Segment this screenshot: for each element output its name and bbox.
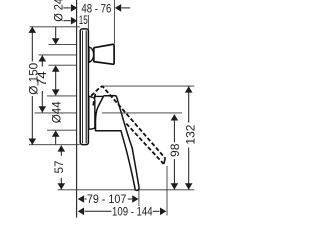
dimension 15 arrow (64, 20, 71, 22)
knob (94, 44, 114, 64)
extension line knob center (39, 54, 77, 56)
dashed sleeve fragment (93, 94, 96, 107)
extension line plate bottom (29, 144, 80, 146)
svg-text:Ø44: Ø44 (49, 101, 63, 123)
wall line (76, 0, 78, 218)
handle collar top edge (95, 95, 104, 97)
extension line 15 right (87, 15, 89, 30)
extension line solid lever tip (138, 190, 140, 206)
extension line lever bottom (58, 189, 195, 191)
svg-text:15: 15 (79, 13, 88, 27)
knob hub (89, 47, 94, 62)
dashed lever lower outline (126, 124, 163, 164)
dimension O44 bottom outside arrow (52, 130, 60, 136)
dimension 48-76 left arrow (63, 7, 70, 9)
extension line handle centerline left (35, 112, 77, 114)
dimension 79-107 left arrow (78, 195, 84, 203)
extension line dashed handle top (102, 85, 195, 87)
lever handle solid (96, 96, 140, 191)
dimension 109-144 right arrow (153, 210, 160, 212)
extension line 48-76 right (113, 0, 115, 44)
svg-text:98: 98 (168, 143, 182, 157)
dimension O24 bottom / O44 top shared rail (52, 65, 60, 71)
plate inner right line (85, 31, 87, 144)
svg-text:132: 132 (184, 124, 198, 144)
dimension 79-107 right arrow (128, 198, 132, 200)
extension line knob top (49, 44, 77, 46)
svg-text:57: 57 (52, 160, 66, 173)
extension line sleeve top (47, 95, 76, 97)
dashed lever tip face (164, 158, 166, 164)
dimension 74 rail (41, 55, 43, 66)
extension line sleeve bottom (47, 129, 76, 131)
centerline over handle (102, 112, 128, 114)
plate inner left line (82, 31, 84, 144)
svg-text:74: 74 (35, 71, 49, 86)
extension line plate top (30, 26, 80, 28)
dimension O150 rail (31, 27, 33, 62)
dimension 132 rail (188, 87, 190, 123)
escutcheon plate (80, 29, 88, 145)
svg-text:Ø 24: Ø 24 (51, 0, 65, 22)
dimension 48-76 right arrow (115, 4, 121, 12)
extension line handle centerline right (102, 112, 182, 114)
dimension 57 rail (60, 146, 62, 156)
dimension 109-144 left arrow (78, 208, 84, 216)
dashed lever upper outline (91, 86, 165, 158)
handle sleeve (89, 96, 95, 129)
dimension 98 rail (173, 114, 175, 142)
extension line knob bottom (49, 64, 77, 66)
svg-text:109 - 144: 109 - 144 (112, 204, 153, 218)
dimension O24 top outside arrow (55, 27, 57, 39)
extension line dashed lever tip (166, 166, 168, 216)
